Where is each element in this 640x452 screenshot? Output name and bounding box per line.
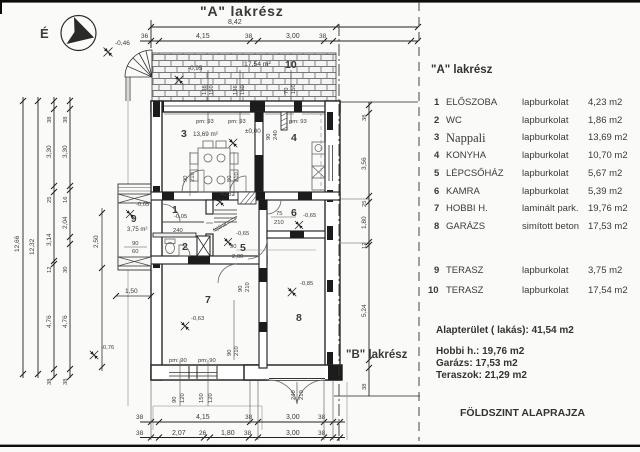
door wallette terrace to room4 xyxy=(281,112,287,130)
svg-text:"A" lakrész: "A" lakrész xyxy=(200,3,284,19)
svg-text:3,30: 3,30 xyxy=(62,145,69,158)
bottom wall room 7 xyxy=(151,365,265,380)
door arc kamra entry xyxy=(267,200,281,214)
svg-text:90: 90 xyxy=(238,286,244,292)
door arc room3 right door xyxy=(230,176,246,192)
door swing line room5 xyxy=(236,249,316,251)
svg-text:12: 12 xyxy=(362,243,368,249)
svg-text:60: 60 xyxy=(132,249,138,255)
witness line left of plan xyxy=(127,77,129,184)
interior wall kamra/garage horizontal xyxy=(267,231,325,238)
svg-text:3,30: 3,30 xyxy=(46,145,53,158)
svg-text:138: 138 xyxy=(202,85,208,95)
svg-text:90: 90 xyxy=(132,241,138,247)
svg-text:26: 26 xyxy=(199,430,207,437)
svg-text:210: 210 xyxy=(234,172,240,182)
svg-text:210: 210 xyxy=(234,346,240,356)
svg-text:5: 5 xyxy=(240,242,246,254)
svg-text:2,50: 2,50 xyxy=(93,235,100,248)
svg-text:150: 150 xyxy=(209,85,215,95)
top dimension line 8,42 xyxy=(151,20,418,48)
svg-text:210: 210 xyxy=(245,282,251,292)
svg-text:12: 12 xyxy=(47,267,53,273)
svg-text:36: 36 xyxy=(141,33,149,40)
svg-text:3,56: 3,56 xyxy=(361,157,368,170)
svg-text:lejárat: lejárat xyxy=(212,221,228,234)
svg-text:7: 7 xyxy=(205,294,211,306)
page top border xyxy=(0,0,640,3)
svg-text:38: 38 xyxy=(63,379,69,385)
svg-text:90: 90 xyxy=(172,397,178,403)
room 4 kitchen counter xyxy=(312,142,325,190)
svg-text:12,66: 12,66 xyxy=(14,235,21,252)
svg-text:90: 90 xyxy=(266,134,272,140)
svg-text:17,54 m²: 17,54 m² xyxy=(244,61,272,68)
svg-text:136: 136 xyxy=(233,85,239,95)
svg-text:4: 4 xyxy=(291,132,297,144)
left outer wall xyxy=(151,101,162,380)
right chain extension lines xyxy=(340,101,418,103)
bottom dim row 2 xyxy=(140,437,345,439)
legend table rows 1-8 xyxy=(430,97,635,237)
dim 2,50 left xyxy=(101,208,103,371)
left dimension chain D xyxy=(69,97,71,378)
drawing title xyxy=(460,407,585,419)
bottom dim row 1 xyxy=(140,421,345,423)
svg-text:1,80: 1,80 xyxy=(361,216,368,229)
svg-text:38: 38 xyxy=(362,384,368,390)
svg-text:38: 38 xyxy=(136,430,144,437)
svg-text:2,04: 2,04 xyxy=(62,216,69,229)
svg-text:16: 16 xyxy=(63,197,69,203)
B-part faint outline below xyxy=(153,406,262,430)
svg-text:-0,65: -0,65 xyxy=(303,213,316,219)
svg-text:38: 38 xyxy=(63,117,69,123)
A/B boundary dash-dot line xyxy=(338,24,340,444)
svg-text:150: 150 xyxy=(291,84,297,94)
witness lines through terrace xyxy=(208,70,291,124)
room 3 table + chairs xyxy=(190,141,238,192)
svg-text:30: 30 xyxy=(63,267,69,273)
svg-text:75: 75 xyxy=(276,211,282,217)
interior wall room7 top xyxy=(151,256,267,264)
page left edge artifact xyxy=(0,0,2,14)
svg-text:4,76: 4,76 xyxy=(46,315,53,328)
svg-text:150: 150 xyxy=(199,393,205,403)
interior wall room1/room2 divider xyxy=(153,233,196,237)
svg-text:-0,63: -0,63 xyxy=(191,316,204,322)
svg-text:-0,95: -0,95 xyxy=(188,65,203,72)
svg-text:-0,46: -0,46 xyxy=(115,40,130,47)
room1 door leaf line xyxy=(162,221,204,223)
door arc room7 entry xyxy=(218,264,237,283)
right chain extension ticks xyxy=(340,198,369,200)
dim 1,50 below terrace9 xyxy=(116,295,151,297)
right outer wall xyxy=(325,101,340,380)
svg-text:4,15: 4,15 xyxy=(196,414,210,421)
left dimension chain C xyxy=(53,97,55,378)
svg-text:38: 38 xyxy=(318,430,326,437)
legend separator dashed line xyxy=(418,2,420,441)
hatched landing block stair top xyxy=(238,192,256,204)
svg-text:150: 150 xyxy=(240,85,246,95)
svg-text:pm: 93: pm: 93 xyxy=(228,119,246,125)
svg-text:-0,76: -0,76 xyxy=(101,345,114,351)
top dimension line 36/4,15/38/3,00/38 xyxy=(140,40,418,42)
svg-text:2: 2 xyxy=(182,241,188,253)
svg-text:38: 38 xyxy=(318,414,326,421)
svg-text:13,69 m²: 13,69 m² xyxy=(193,131,218,138)
svg-text:pm: 90: pm: 90 xyxy=(198,358,216,364)
svg-text:-0,05: -0,05 xyxy=(136,202,149,208)
svg-text:pm: 90: pm: 90 xyxy=(169,358,187,364)
svg-text:38: 38 xyxy=(47,117,53,123)
left dimension chain B 12,32 xyxy=(37,97,39,378)
door arc stairwell to garage xyxy=(248,240,267,259)
stair top elevation marker xyxy=(216,198,224,206)
svg-text:-0,05: -0,05 xyxy=(174,214,187,220)
wc fixtures xyxy=(165,239,190,256)
svg-text:4,15: 4,15 xyxy=(196,33,210,40)
elevation marker -0,46 xyxy=(104,48,113,57)
dashed line room4 xyxy=(320,112,322,196)
elevation marker -0,76 outside xyxy=(90,351,99,360)
svg-text:240: 240 xyxy=(273,130,279,140)
legend terasz rows xyxy=(430,265,635,305)
svg-text:240: 240 xyxy=(173,228,183,234)
svg-text:5,24: 5,24 xyxy=(361,304,368,317)
bottom wall garage with door opening xyxy=(244,365,342,380)
svg-text:38: 38 xyxy=(244,430,252,437)
svg-text:240: 240 xyxy=(291,390,297,400)
chimney block with X xyxy=(197,236,210,256)
svg-text:38: 38 xyxy=(245,414,253,421)
svg-text:2,07: 2,07 xyxy=(172,430,186,437)
svg-text:2,00: 2,00 xyxy=(232,254,243,260)
terrace 10 brick hatch slab xyxy=(152,53,336,101)
svg-text:4,76: 4,76 xyxy=(62,315,69,328)
left dimension chain A 12,66 xyxy=(22,97,24,378)
compass north arrow xyxy=(61,16,96,51)
svg-text:90: 90 xyxy=(227,350,233,356)
svg-text:38: 38 xyxy=(47,379,53,385)
svg-text:1,50: 1,50 xyxy=(125,288,138,295)
svg-text:3,00: 3,00 xyxy=(286,33,300,40)
svg-text:12,32: 12,32 xyxy=(29,238,36,255)
svg-text:38: 38 xyxy=(136,414,144,421)
quarter fan exterior stair top-left xyxy=(125,50,152,101)
svg-text:210: 210 xyxy=(190,172,196,182)
svg-text:pm: 93: pm: 93 xyxy=(289,119,307,125)
interior wall stairwell/garage vertical xyxy=(259,200,267,368)
door arc room1 entrance xyxy=(162,204,180,222)
svg-text:8: 8 xyxy=(296,312,302,324)
door arc room3 left door xyxy=(182,170,204,192)
svg-text:3,00: 3,00 xyxy=(286,414,300,421)
interior wall middle horizontal xyxy=(151,192,340,200)
interior wall rooms 3/4 divider xyxy=(255,112,263,192)
svg-text:3,14: 3,14 xyxy=(46,233,53,246)
witness lines bottom xyxy=(151,380,333,440)
svg-text:10: 10 xyxy=(285,59,297,71)
interior wall rooms1-2/stairwell xyxy=(206,200,213,214)
svg-text:3,00: 3,00 xyxy=(286,430,300,437)
svg-text:90: 90 xyxy=(183,176,189,182)
svg-text:-0,85: -0,85 xyxy=(300,281,313,287)
legend summary xyxy=(436,325,574,336)
svg-text:-0,65: -0,65 xyxy=(236,231,249,237)
svg-text:3: 3 xyxy=(181,128,187,140)
svg-text:±0,00: ±0,00 xyxy=(245,128,261,135)
garage door swing arcs xyxy=(269,380,325,404)
svg-text:pm: 93: pm: 93 xyxy=(196,119,214,125)
bottom witness lines xyxy=(180,360,208,406)
legend title "A" lakrész xyxy=(431,64,492,76)
svg-text:É: É xyxy=(40,26,49,41)
svg-text:"B" lakrész: "B" lakrész xyxy=(346,349,408,361)
svg-text:25: 25 xyxy=(47,197,53,203)
svg-text:210: 210 xyxy=(299,390,305,400)
svg-text:70: 70 xyxy=(284,88,290,94)
right dimension chain xyxy=(368,102,370,396)
outer top wall xyxy=(151,101,340,130)
svg-text:120: 120 xyxy=(180,393,186,403)
svg-text:1,80: 1,80 xyxy=(221,430,235,437)
svg-text:+0,82: +0,82 xyxy=(220,192,235,198)
svg-text:38: 38 xyxy=(362,115,368,121)
stairs in stairwell 5 xyxy=(213,210,237,231)
svg-text:120: 120 xyxy=(208,393,214,403)
svg-text:3,75 m²: 3,75 m² xyxy=(127,227,147,233)
terrace 9 left steps structure xyxy=(118,184,151,270)
svg-text:210: 210 xyxy=(274,220,284,226)
svg-text:8,42: 8,42 xyxy=(228,19,242,26)
svg-text:25: 25 xyxy=(362,201,368,207)
page bottom border xyxy=(0,445,640,447)
